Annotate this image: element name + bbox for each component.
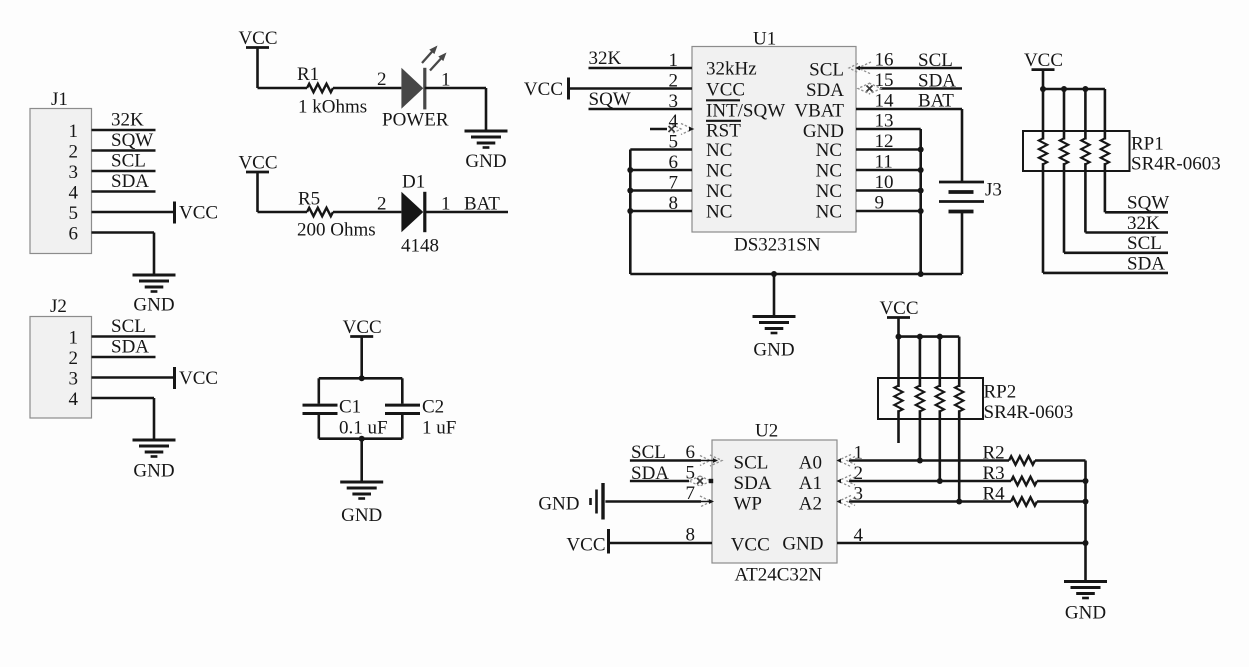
- svg-text:U2: U2: [755, 421, 778, 442]
- svg-text:D1: D1: [402, 172, 425, 193]
- svg-text:VBAT: VBAT: [794, 101, 844, 122]
- svg-text:3: 3: [669, 91, 679, 112]
- svg-text:5: 5: [69, 203, 79, 224]
- svg-text:SDA: SDA: [734, 473, 772, 494]
- svg-text:200 Ohms: 200 Ohms: [297, 220, 376, 241]
- svg-text:1: 1: [69, 328, 79, 349]
- svg-text:GND: GND: [133, 295, 174, 316]
- svg-text:J2: J2: [50, 296, 67, 317]
- svg-text:POWER: POWER: [382, 110, 449, 131]
- svg-text:6: 6: [69, 224, 79, 245]
- svg-text:8: 8: [686, 525, 696, 546]
- svg-text:SQW: SQW: [111, 130, 153, 151]
- svg-text:VCC: VCC: [566, 535, 605, 556]
- svg-text:2: 2: [669, 71, 679, 92]
- svg-text:R3: R3: [983, 463, 1005, 484]
- svg-text:SCL: SCL: [631, 442, 666, 463]
- svg-text:VCC: VCC: [343, 317, 382, 338]
- svg-text:J1: J1: [51, 89, 68, 110]
- svg-text:SDA: SDA: [1127, 254, 1165, 275]
- svg-text:3: 3: [69, 162, 79, 183]
- svg-text:2: 2: [69, 142, 79, 163]
- svg-text:3: 3: [69, 369, 79, 390]
- svg-text:C1: C1: [339, 397, 361, 418]
- svg-text:1 kOhms: 1 kOhms: [298, 97, 367, 118]
- svg-text:5: 5: [669, 132, 679, 153]
- svg-text:5: 5: [686, 463, 696, 484]
- svg-text:GND: GND: [753, 340, 794, 361]
- svg-text:VCC: VCC: [1024, 50, 1063, 71]
- svg-text:A1: A1: [799, 473, 822, 494]
- svg-text:VCC: VCC: [879, 298, 918, 319]
- svg-text:BAT: BAT: [464, 194, 500, 215]
- svg-text:A0: A0: [799, 453, 822, 474]
- svg-text:VCC: VCC: [706, 80, 745, 101]
- svg-text:VCC: VCC: [179, 368, 218, 389]
- svg-text:2: 2: [377, 69, 387, 90]
- svg-text:A2: A2: [799, 494, 822, 515]
- svg-text:4: 4: [69, 389, 79, 410]
- svg-text:8: 8: [669, 193, 679, 214]
- svg-text:J3: J3: [985, 180, 1002, 201]
- svg-text:RP2: RP2: [984, 382, 1017, 403]
- svg-text:DS3231SN: DS3231SN: [734, 235, 821, 256]
- svg-text:2: 2: [377, 194, 387, 215]
- svg-text:6: 6: [686, 442, 696, 463]
- svg-text:VCC: VCC: [238, 153, 277, 174]
- svg-text:SDA: SDA: [806, 80, 844, 101]
- svg-text:SDA: SDA: [111, 171, 149, 192]
- svg-text:4: 4: [69, 183, 79, 204]
- svg-text:4148: 4148: [401, 236, 439, 257]
- svg-text:NC: NC: [816, 202, 842, 223]
- svg-text:NC: NC: [816, 161, 842, 182]
- svg-text:SCL: SCL: [111, 316, 146, 337]
- svg-text:32K: 32K: [111, 110, 144, 131]
- svg-text:R2: R2: [983, 443, 1005, 464]
- svg-text:SR4R-0603: SR4R-0603: [984, 402, 1074, 423]
- svg-text:SDA: SDA: [631, 463, 669, 484]
- svg-text:SCL: SCL: [111, 151, 146, 172]
- svg-text:GND: GND: [782, 534, 823, 555]
- svg-text:VCC: VCC: [524, 79, 563, 100]
- svg-text:32K: 32K: [1127, 213, 1160, 234]
- svg-text:SCL: SCL: [809, 60, 844, 81]
- svg-text:7: 7: [669, 173, 679, 194]
- svg-text:INT/SQW: INT/SQW: [706, 101, 785, 122]
- svg-text:R4: R4: [983, 484, 1006, 505]
- svg-text:GND: GND: [1065, 603, 1106, 624]
- svg-text:NC: NC: [706, 181, 732, 202]
- svg-text:R1: R1: [297, 64, 319, 85]
- svg-text:VCC: VCC: [731, 535, 770, 556]
- svg-text:VCC: VCC: [179, 203, 218, 224]
- svg-text:3: 3: [854, 484, 864, 505]
- svg-text:SQW: SQW: [589, 89, 631, 110]
- svg-text:BAT: BAT: [918, 91, 954, 112]
- svg-text:NC: NC: [706, 161, 732, 182]
- svg-text:SR4R-0603: SR4R-0603: [1131, 154, 1221, 175]
- svg-text:NC: NC: [816, 181, 842, 202]
- svg-text:2: 2: [854, 463, 864, 484]
- svg-text:NC: NC: [706, 140, 732, 161]
- svg-text:7: 7: [686, 483, 696, 504]
- svg-text:RST: RST: [706, 121, 741, 142]
- svg-text:SDA: SDA: [918, 70, 956, 91]
- svg-text:SDA: SDA: [111, 337, 149, 358]
- svg-text:4: 4: [669, 111, 679, 132]
- svg-text:RP1: RP1: [1131, 134, 1164, 155]
- svg-text:C2: C2: [422, 397, 444, 418]
- svg-text:4: 4: [854, 525, 864, 546]
- svg-text:0.1 uF: 0.1 uF: [339, 418, 388, 439]
- svg-text:SQW: SQW: [1127, 193, 1169, 214]
- svg-text:GND: GND: [133, 461, 174, 482]
- svg-text:2: 2: [69, 348, 79, 369]
- svg-text:1: 1: [69, 121, 79, 142]
- svg-text:WP: WP: [734, 494, 763, 515]
- svg-text:AT24C32N: AT24C32N: [735, 565, 823, 586]
- svg-text:GND: GND: [341, 505, 382, 526]
- svg-text:SCL: SCL: [734, 453, 769, 474]
- svg-text:R5: R5: [298, 189, 320, 210]
- svg-text:1 uF: 1 uF: [422, 418, 456, 439]
- svg-text:32K: 32K: [589, 48, 622, 69]
- svg-text:32kHz: 32kHz: [706, 59, 757, 80]
- svg-text:NC: NC: [816, 140, 842, 161]
- svg-text:U1: U1: [753, 29, 776, 50]
- svg-text:1: 1: [854, 443, 864, 464]
- svg-text:VCC: VCC: [238, 28, 277, 49]
- svg-text:GND: GND: [803, 121, 844, 142]
- svg-text:GND: GND: [465, 151, 506, 172]
- svg-text:SCL: SCL: [918, 50, 953, 71]
- svg-text:6: 6: [669, 152, 679, 173]
- svg-text:SCL: SCL: [1127, 233, 1162, 254]
- svg-text:GND: GND: [538, 494, 579, 515]
- svg-text:NC: NC: [706, 202, 732, 223]
- svg-text:1: 1: [669, 50, 679, 71]
